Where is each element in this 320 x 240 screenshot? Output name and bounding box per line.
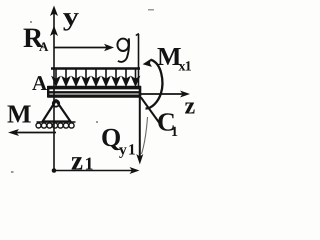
node R_A label xyxy=(23,29,43,47)
distributed load q top line xyxy=(51,67,140,70)
pin support triangle xyxy=(43,101,71,122)
node M label xyxy=(7,105,30,122)
support hatching (roller-like loops) xyxy=(36,123,74,128)
reaction R_A arrowhead xyxy=(50,26,58,37)
beam AB (drawn as 3 horizontal lines with end caps) xyxy=(48,86,142,98)
pin support at A: pin circle xyxy=(53,100,59,106)
leader line to C1 xyxy=(141,98,161,125)
moment M arrow (pointing left) xyxy=(14,132,56,134)
node M_x1 label xyxy=(157,48,180,65)
scan noise dots xyxy=(11,9,154,173)
node z_1 label xyxy=(72,157,83,169)
node A label xyxy=(32,76,47,90)
node z label xyxy=(185,102,195,113)
node y label xyxy=(63,13,79,31)
load direction arrow q (horizontal) xyxy=(54,47,108,49)
dimension z1 line xyxy=(54,170,135,172)
node Q_y1 label xyxy=(102,129,120,150)
y axis arrowhead xyxy=(50,6,58,17)
support ground line xyxy=(37,121,76,123)
distributed load arrows xyxy=(53,69,139,85)
node q label (handwritten) xyxy=(117,38,129,62)
shear force Q_y1 arrow (down) xyxy=(139,98,141,158)
internal moment arc M_x1 xyxy=(146,60,163,109)
wire: section line 1 above beam xyxy=(138,34,140,86)
wire: main vertical line through A (y-axis / support line) xyxy=(53,9,55,170)
z axis xyxy=(141,93,184,95)
node C_1 label xyxy=(158,113,174,130)
